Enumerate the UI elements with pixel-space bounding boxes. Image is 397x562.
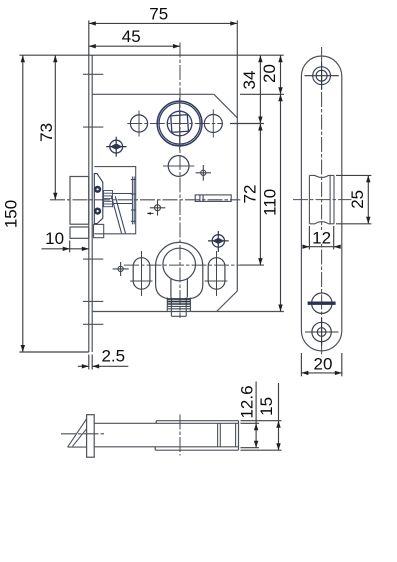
side bottom screw xyxy=(305,318,339,346)
svg-text:12.6: 12.6 xyxy=(237,385,256,418)
left slot xyxy=(130,251,152,296)
svg-text:75: 75 xyxy=(149,4,168,23)
dim 75 xyxy=(89,4,238,55)
left hole xyxy=(130,111,147,137)
svg-text:20: 20 xyxy=(314,354,333,373)
latch rod xyxy=(113,194,133,204)
svg-text:72: 72 xyxy=(240,185,259,204)
dim 150 xyxy=(1,55,88,352)
vertical centerline through spindle and cylinder xyxy=(179,43,181,319)
lock body outline xyxy=(92,20,284,311)
svg-text:2.5: 2.5 xyxy=(101,346,125,365)
small hole left of slot xyxy=(113,262,129,276)
latch centerline xyxy=(50,199,240,201)
latch spring xyxy=(104,190,113,207)
bottom view faceplate xyxy=(87,415,95,458)
latch head xyxy=(70,177,89,239)
latch lever diagonals xyxy=(111,196,125,233)
latch end cap xyxy=(131,177,136,225)
svg-text:12: 12 xyxy=(312,229,331,248)
bottom view body xyxy=(94,421,238,451)
right hole xyxy=(204,110,222,138)
dim 34 xyxy=(230,55,264,123)
fixing screw upper xyxy=(106,137,126,157)
dim 73 xyxy=(37,55,58,200)
tiny hole right xyxy=(196,165,211,181)
dim 72 xyxy=(240,124,264,266)
dim 2.5 xyxy=(78,346,128,369)
fixing screw lower xyxy=(208,231,229,252)
cylinder outer contour xyxy=(156,242,203,298)
svg-text:10: 10 xyxy=(45,229,64,248)
dim 20 top xyxy=(240,55,284,94)
svg-text:34: 34 xyxy=(240,71,259,90)
hole row centerline xyxy=(127,123,223,125)
small arrow mark xyxy=(147,212,154,215)
latch follower plate xyxy=(94,174,103,224)
faceplate tick marks xyxy=(83,74,103,324)
front view faceplate xyxy=(89,55,92,352)
top extension line xyxy=(19,54,283,56)
side latch recess xyxy=(309,175,334,223)
side view plate xyxy=(301,56,341,351)
svg-text:25: 25 xyxy=(348,190,367,209)
latch plate screws xyxy=(94,186,101,215)
hole below spindle xyxy=(163,156,194,177)
cylinder row centerline xyxy=(124,264,240,266)
cylinder keyhole xyxy=(163,248,196,297)
small hole mid xyxy=(150,200,166,216)
svg-text:15: 15 xyxy=(257,397,276,416)
svg-text:150: 150 xyxy=(1,200,20,228)
latch guide behind plate xyxy=(94,224,104,237)
bottom view latch crosshair xyxy=(61,433,104,435)
dim 20 side bottom xyxy=(301,353,341,376)
bottom view spindle centerline xyxy=(179,415,181,456)
dim 110 xyxy=(260,94,282,311)
slide pin xyxy=(195,195,231,202)
side view centerline xyxy=(321,47,323,357)
dim 10 xyxy=(42,229,89,252)
latch housing xyxy=(94,167,135,234)
svg-text:73: 73 xyxy=(37,123,56,142)
cylinder rib block xyxy=(167,298,190,317)
svg-text:45: 45 xyxy=(122,27,141,46)
svg-text:20: 20 xyxy=(260,64,279,83)
dim 12.6 xyxy=(237,382,259,448)
dim 12 xyxy=(302,226,340,250)
svg-text:110: 110 xyxy=(260,189,279,216)
dim 15 xyxy=(241,383,282,450)
side top screw xyxy=(305,62,339,89)
spindle hub xyxy=(157,98,202,150)
dim 25 xyxy=(336,175,371,223)
dim 45 xyxy=(89,27,180,48)
right slot xyxy=(205,251,228,296)
side slotted screw xyxy=(308,293,336,313)
bottom view latch bevel xyxy=(68,419,87,447)
side latch centerline xyxy=(293,199,352,201)
